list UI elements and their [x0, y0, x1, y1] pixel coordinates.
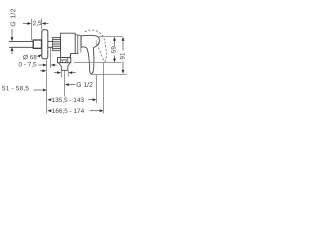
dashed raised-handle outline: outer blade edge: [105, 45, 107, 62]
faucet body: [61, 33, 76, 57]
dim 135,5 - 143: [47, 98, 51, 101]
escutcheon: [42, 30, 48, 59]
handle head + blade: [81, 35, 99, 73]
dim 59 (vertical, right): [99, 36, 123, 38]
outlet flange: [58, 58, 71, 63]
nipple width arrows: [54, 72, 58, 74]
pipe end cap / 0-7,5 right extension: [50, 48, 52, 69]
extension line from escutcheon face (shared by dims): [46, 60, 48, 114]
label G 1/2 (top-left, rotated): [10, 9, 15, 26]
leader arrow down to pipe top: [11, 29, 13, 38]
label Ø 68 with leader: [23, 55, 36, 60]
outlet nipple G1/2: [61, 66, 68, 70]
label G 1/2 (outlet): [77, 82, 93, 87]
dim 166,5 - 174: [47, 109, 51, 112]
dim 51 - 58,5: [2, 86, 28, 91]
leader arrow up to pipe bottom: [11, 51, 13, 55]
dim 2,5: [33, 21, 41, 26]
collar / neck band: [78, 35, 81, 54]
handle joint line: [95, 40, 97, 45]
dim 91 (vertical, far right): [91, 73, 127, 75]
dashed raised-handle outline: inner blade edge: [97, 44, 104, 61]
extra arrow to escutcheon-face line: [40, 70, 43, 72]
label 0 - 7,5 with arrows: [19, 62, 37, 67]
supply pipe: [9, 41, 53, 47]
nipple extension lines + centerline: [61, 71, 63, 78]
knurled union nut: [53, 37, 61, 50]
outlet taper: [58, 63, 70, 66]
dashed raised-handle outline: top: [85, 30, 105, 43]
wall coupling: [33, 40, 41, 48]
